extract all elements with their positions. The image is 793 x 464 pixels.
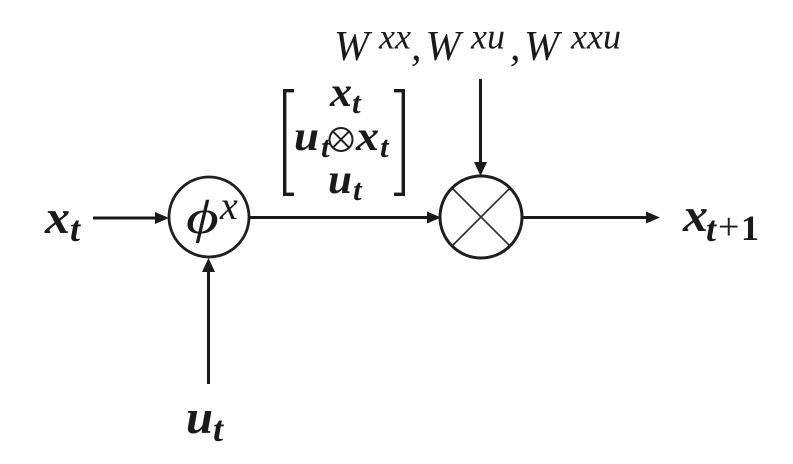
wire weights down arrow into multiplier	[474, 79, 487, 176]
svg-text:x: x	[682, 189, 708, 242]
label weights W^xx, W^xu, W^xxu	[334, 17, 621, 71]
wire output arrow multiplier to x_t+1	[522, 212, 660, 224]
svg-text:u: u	[294, 114, 319, 160]
svg-text:xxu: xxu	[570, 17, 621, 57]
row 1: x_t	[329, 70, 362, 120]
svg-text:+: +	[718, 206, 739, 248]
svg-text:xx: xx	[378, 17, 411, 57]
svg-text:t: t	[213, 409, 224, 449]
svg-text:1: 1	[741, 208, 759, 248]
row 2: u_t otimes x_t	[294, 114, 390, 164]
svg-text:x: x	[219, 183, 238, 228]
svg-text:W: W	[334, 24, 373, 70]
svg-text:,: ,	[411, 24, 422, 70]
label u_t (control input)	[186, 391, 224, 449]
svg-text:t: t	[353, 172, 363, 207]
svg-text:W: W	[426, 24, 465, 70]
node multiplier (circle with X)	[440, 176, 522, 258]
svg-text:,: ,	[510, 24, 521, 70]
label x_t+1 (next state)	[682, 189, 759, 249]
svg-text:x: x	[329, 70, 352, 116]
svg-text:W: W	[524, 24, 563, 70]
row 3: u_t	[328, 157, 363, 207]
svg-text:x: x	[44, 191, 70, 244]
label feature vector [x_t ; u_t otimes x_t ; u_t]	[283, 70, 405, 207]
svg-text:xu: xu	[470, 17, 505, 57]
wire input arrow x_t to phi	[93, 212, 169, 224]
svg-text:u: u	[328, 157, 352, 203]
svg-text:t: t	[70, 209, 81, 249]
label x_t (input state)	[44, 191, 81, 249]
left bracket	[283, 89, 294, 196]
wire u_t up arrow into phi	[202, 258, 215, 384]
svg-text:t: t	[706, 209, 717, 249]
svg-text:t: t	[380, 129, 390, 164]
node phi (state transition function)	[169, 177, 249, 257]
svg-text:u: u	[186, 391, 213, 444]
wire phi to multiplier	[249, 212, 441, 224]
svg-text:x: x	[355, 114, 379, 160]
right bracket	[394, 89, 405, 196]
svg-text:ϕ: ϕ	[186, 191, 219, 244]
